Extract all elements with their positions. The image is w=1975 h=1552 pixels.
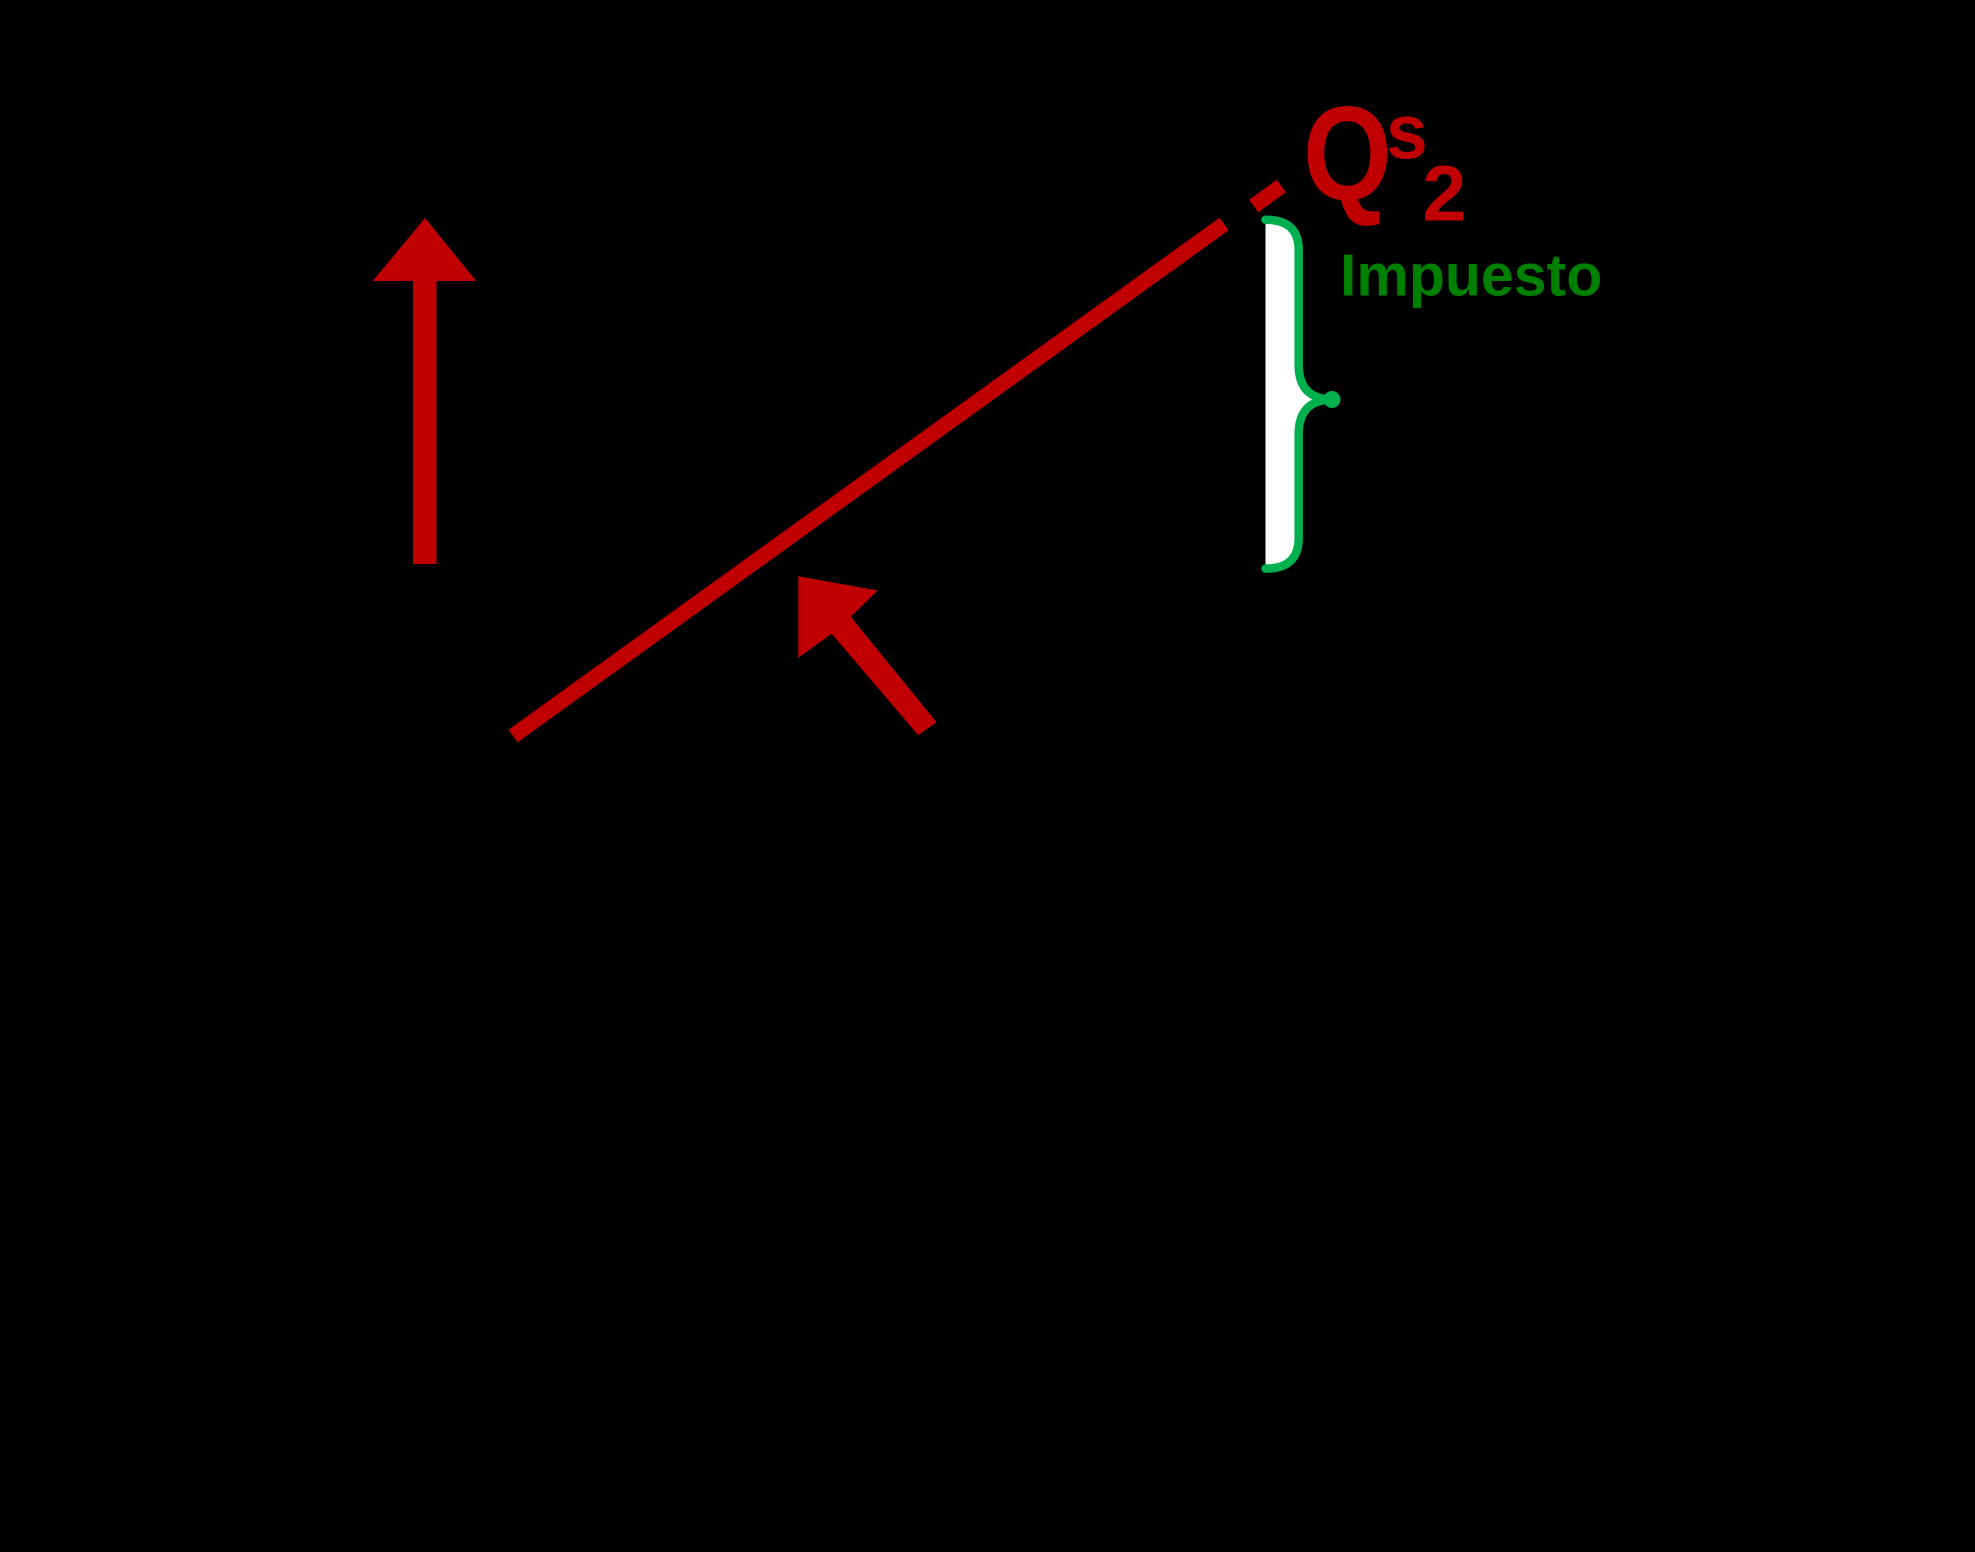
supply curve S2 solid segment — [513, 224, 1224, 736]
red diagonal arrow pointing up-left — [798, 576, 936, 735]
svg-text:Q: Q — [1303, 79, 1392, 228]
green brace cusp knob — [1324, 391, 1341, 408]
svg-text:s: s — [1386, 89, 1428, 176]
green brace with white fill — [1266, 220, 1334, 569]
red up arrow — [373, 218, 477, 564]
supply curve dash segment — [1254, 186, 1282, 206]
svg-text:2: 2 — [1422, 149, 1466, 238]
svg-text:Impuesto: Impuesto — [1340, 242, 1602, 308]
